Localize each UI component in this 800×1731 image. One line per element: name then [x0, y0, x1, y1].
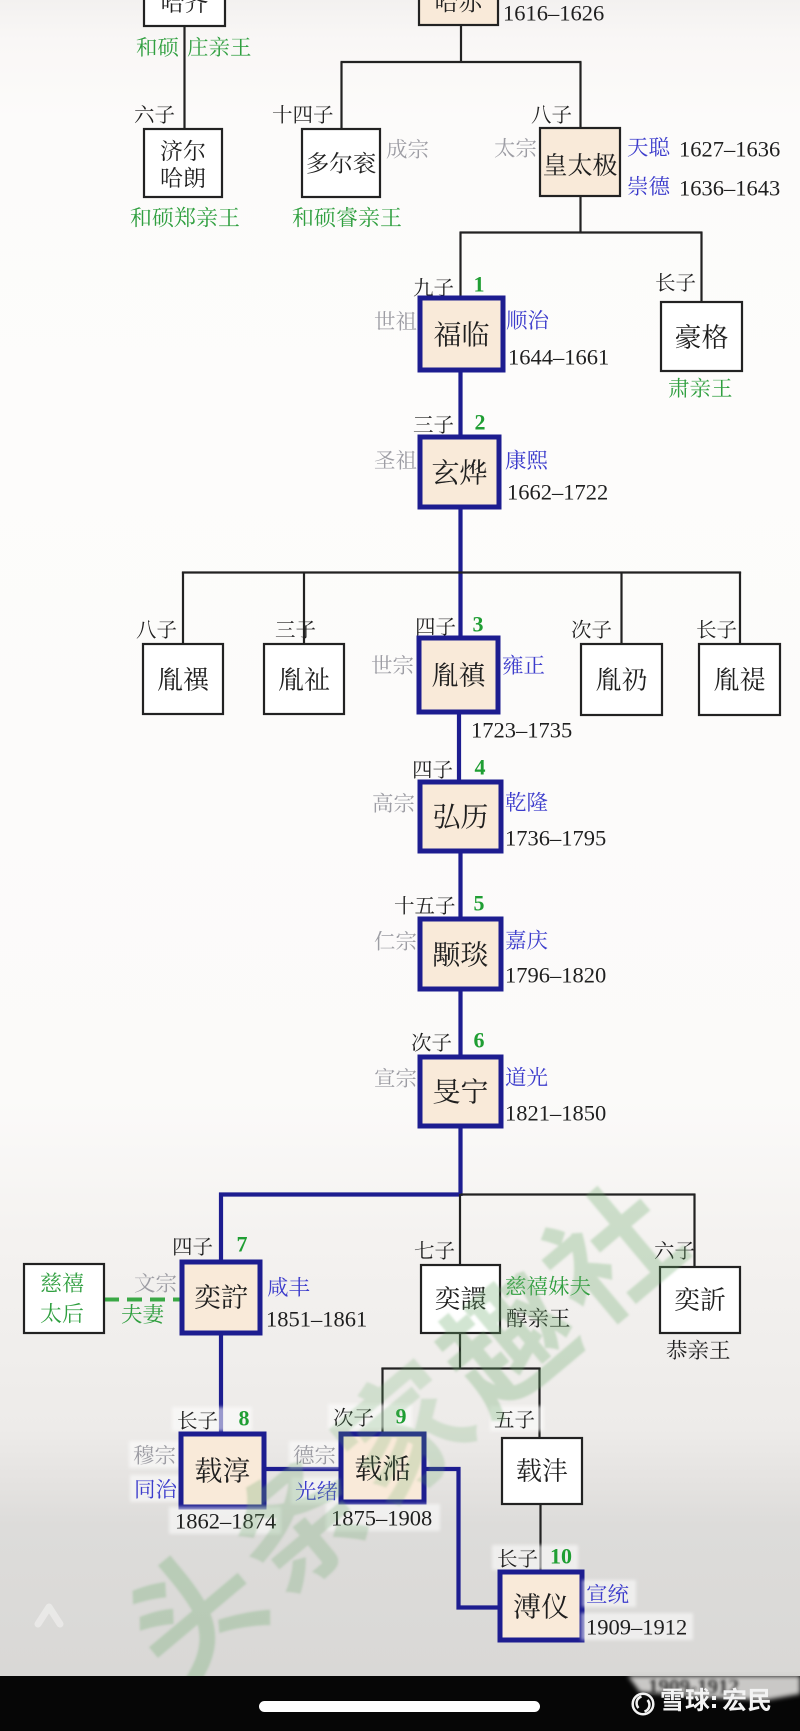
wire nurhaci down	[460, 24, 462, 62]
years of Tongzhi	[169, 1507, 281, 1534]
wire yinzhen to hongli (blue)	[457, 711, 461, 783]
gray temple name Taizong	[495, 138, 536, 158]
node Nurhaci box (top, cut off)	[419, 0, 498, 25]
node emperor Xuanye box	[420, 437, 499, 507]
label liuzi (6th son, yixin)	[655, 1241, 694, 1260]
gray temple name Muzong	[129, 1441, 183, 1468]
watermark toutiao jiaqushe (diagonal light green)	[112, 1167, 696, 1696]
node emperor Fulin box	[420, 298, 503, 370]
label sanzi (3rd son, yinzhi)	[276, 621, 315, 639]
node Jierhalang box	[144, 129, 222, 197]
blue era Jiaqing	[506, 930, 547, 950]
label sizi (4th son, hongli)	[414, 761, 452, 779]
wire huangtaiji children horizontal	[460, 231, 703, 233]
xueqiu logo circle	[633, 1694, 654, 1715]
svg-text:7: 7	[237, 1231, 248, 1256]
label shisizi (14th son)	[273, 105, 333, 124]
wire drop to yinzhi	[303, 572, 305, 645]
label cizi (2nd son, minning)	[412, 1033, 451, 1052]
wire hongli to yongyan (blue)	[458, 850, 462, 920]
green title heshuo zheng qinwang	[131, 207, 239, 228]
watermark xueqiu: hongmin	[662, 1688, 710, 1712]
svg-text:1616–1626: 1616–1626	[503, 1, 604, 26]
wire yongyan to minning (blue)	[458, 987, 462, 1058]
label zhangzi (1st son, yinti)	[697, 620, 736, 639]
wire huangtaiji down	[579, 195, 581, 233]
wire nurhaci children horizontal	[341, 61, 582, 63]
wire zaichun to zaitian (blue)	[263, 1467, 342, 1471]
blurry ghost text above bar right	[648, 1675, 739, 1699]
wire drop to yinreng	[620, 572, 622, 645]
node emperor Yinzhen box	[419, 638, 498, 712]
svg-text:1636–1643: 1636–1643	[679, 176, 780, 201]
home indicator bar	[259, 1701, 540, 1712]
gray temple name Chengzong	[387, 139, 428, 159]
gray temple name Shengzu	[375, 450, 417, 470]
blue era Tongzhi	[130, 1475, 184, 1502]
wire drop to duorgun	[340, 62, 342, 130]
green label fuqi (married couple)	[122, 1304, 163, 1324]
node Duorgun box	[302, 129, 380, 197]
node Huangtaiji box	[540, 128, 620, 196]
green title heshuo rui qinwang	[293, 207, 401, 228]
node Cixi taihou box	[24, 1264, 104, 1333]
years of Guangxu	[326, 1504, 440, 1531]
wire minning children horizontal right	[461, 1193, 696, 1195]
gray temple name Shizong	[372, 655, 413, 675]
svg-text:1: 1	[474, 271, 485, 296]
svg-text:1736–1795: 1736–1795	[505, 826, 606, 851]
green label cixi meifu	[506, 1276, 590, 1296]
node emperor Zaitian box	[341, 1434, 424, 1502]
svg-text:5: 5	[474, 890, 485, 915]
blue era Kangxi	[506, 450, 547, 470]
wire drop to fulin	[459, 232, 461, 299]
green title su qinwang	[669, 378, 732, 398]
blue era Shunzhi	[507, 310, 548, 330]
wire drop to zaifeng	[538, 1368, 540, 1439]
svg-text:1821–1850: 1821–1850	[505, 1101, 606, 1126]
svg-text:1796–1820: 1796–1820	[505, 963, 606, 988]
node Yinzhi box	[264, 644, 344, 714]
label shiwuzi (15th son)	[395, 896, 455, 915]
gray temple name Xuanzong	[375, 1068, 416, 1088]
label zhangzi (1st son, puyi)	[492, 1545, 578, 1570]
wire drop to haoge	[700, 232, 702, 303]
label bazi (8th son)	[532, 105, 572, 123]
svg-text:1909–1912: 1909–1912	[586, 1615, 687, 1640]
label sizi (4th son)	[417, 618, 455, 636]
node Yinsi box	[143, 644, 223, 714]
green title of Haqi: heshuo zhuangqinwang	[137, 37, 178, 57]
wire haqi down to jierhalang	[183, 26, 185, 130]
wire drop to yinti	[739, 572, 741, 645]
gray temple name Gaozong	[373, 793, 414, 813]
faint white chevron bottom left	[38, 1607, 60, 1624]
label cizi (2nd son, yinreng)	[572, 620, 611, 639]
label bazi (8th son, yinsi)	[137, 620, 177, 638]
node emperor Minning box	[420, 1057, 501, 1126]
blue era Xuantong	[582, 1580, 636, 1607]
wire minning children horizontal left (blue)	[219, 1192, 461, 1196]
node Yixuan box	[421, 1265, 500, 1333]
wire xuanye down to split (blue)	[458, 506, 462, 639]
wire drop to yixin	[693, 1194, 695, 1268]
svg-text:1644–1661: 1644–1661	[508, 345, 609, 370]
marriage dashed line cixi-yizhu (green)	[104, 1298, 184, 1302]
blue era Daoguang	[506, 1067, 548, 1087]
wire drop to yizhu (blue)	[219, 1193, 223, 1264]
label qizi (7th son, yixuan)	[415, 1241, 454, 1260]
wire drop to yixuan	[459, 1194, 461, 1266]
svg-text:1723–1735: 1723–1735	[471, 718, 572, 743]
black title gong qinwang	[667, 1340, 730, 1360]
node Zaifeng box	[502, 1438, 582, 1504]
svg-text:4: 4	[475, 754, 486, 779]
node Haqi box (top, cut off)	[144, 0, 225, 26]
wire fulin to xuanye (blue)	[458, 369, 462, 438]
wire yizhu to zaichun (blue)	[219, 1332, 223, 1435]
node Yinti box	[699, 644, 780, 715]
wire yixuan children horizontal	[381, 1367, 540, 1369]
blue era Qianlong	[506, 792, 548, 812]
svg-text:8: 8	[239, 1405, 250, 1430]
label sizi (4th son, yizhu)	[174, 1238, 212, 1256]
label wuzi (5th son, zaifeng)	[490, 1406, 544, 1431]
wire drop to zaitian	[381, 1368, 383, 1435]
label zhangzi (1st son)	[656, 273, 695, 292]
svg-text:10: 10	[550, 1543, 572, 1568]
wire zaitian to puyi (blue elbow)	[423, 1469, 501, 1608]
svg-text:3: 3	[473, 611, 484, 636]
black bottom bar	[0, 1676, 800, 1731]
gray temple name Shizu	[375, 311, 417, 331]
node Yinreng box	[581, 644, 662, 715]
blue era Guangxu	[291, 1477, 345, 1504]
gray temple name Renzong	[375, 931, 416, 951]
wire minning down (blue)	[458, 1125, 462, 1196]
node emperor Yizhu box	[182, 1262, 260, 1333]
node emperor Puyi box	[500, 1572, 582, 1640]
wire yixuan down	[459, 1332, 461, 1369]
node emperor Hongli box	[420, 782, 501, 851]
svg-text:1851–1861: 1851–1861	[266, 1307, 367, 1332]
gray temple name Dezong	[289, 1441, 343, 1468]
label zhangzi (1st son, zaichun)	[172, 1407, 252, 1431]
gray temple name Wenzong	[135, 1273, 176, 1293]
label liuzi (6th son)	[135, 105, 174, 124]
gray smudge top-right of bottom bar	[628, 1676, 800, 1700]
node Yixin box	[660, 1267, 740, 1333]
svg-text:2: 2	[475, 409, 486, 434]
node Haoge box	[661, 302, 742, 371]
blue era Xianfeng	[268, 1277, 310, 1297]
years of Xuantong	[581, 1613, 693, 1640]
svg-text:1627–1636: 1627–1636	[679, 137, 780, 162]
label cizi (2nd son, zaitian)	[328, 1404, 412, 1429]
node emperor Zaichun box	[181, 1434, 264, 1507]
node emperor Yongyan box	[420, 919, 501, 989]
blue era Chongde + years	[628, 176, 669, 196]
label sanzi (3rd son)	[414, 416, 453, 434]
blue era Yongzheng	[503, 655, 544, 675]
black title chun qinwang	[507, 1308, 570, 1328]
wire zaifeng to puyi	[539, 1503, 541, 1573]
wire drop to huangtaiji	[579, 62, 581, 129]
wire yinzhen siblings horizontal	[182, 571, 741, 573]
svg-text:6: 6	[474, 1027, 485, 1052]
label jiuzi (9th son)	[414, 278, 453, 297]
svg-text:1662–1722: 1662–1722	[507, 480, 608, 505]
blue era Tiancong + years	[628, 137, 670, 157]
wire drop to yinsi	[182, 572, 184, 645]
